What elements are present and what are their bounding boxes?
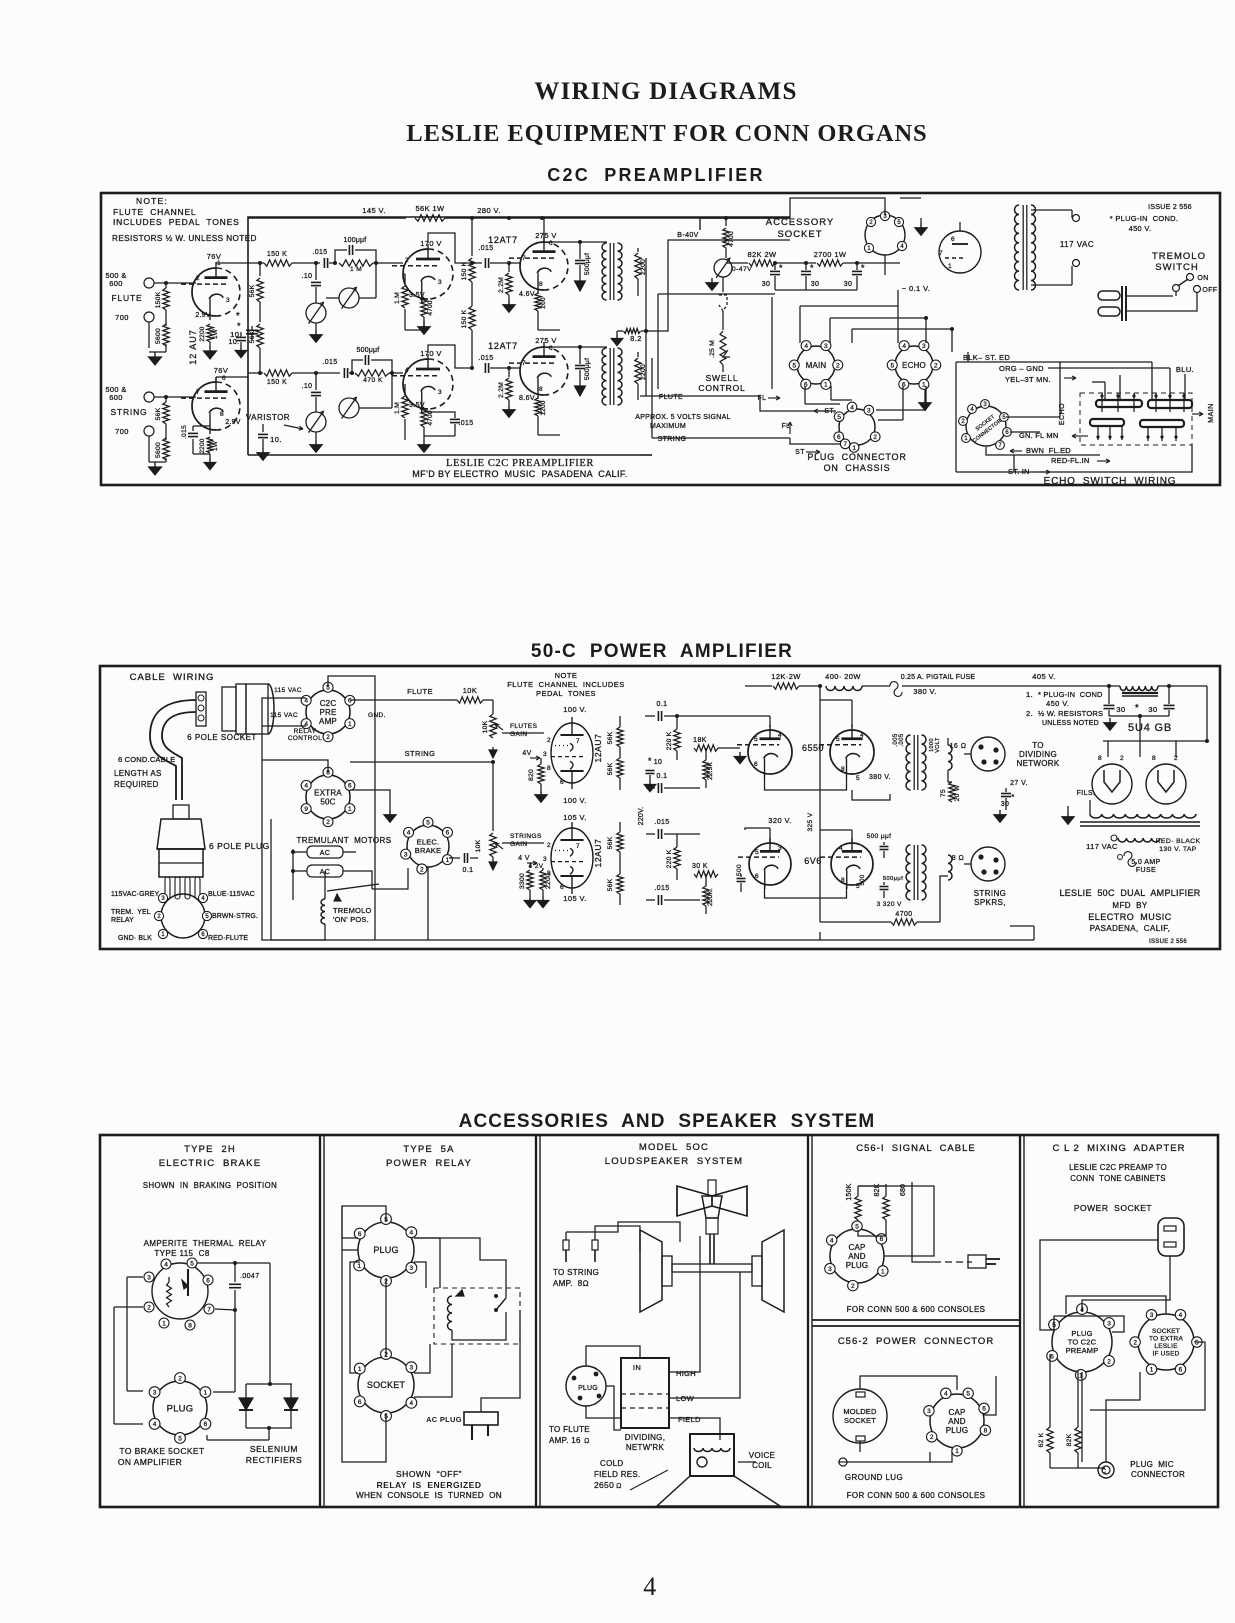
cable curve bbox=[150, 700, 196, 800]
svg-text:SELENIUM: SELENIUM bbox=[250, 1444, 298, 1454]
svg-text:LESLIE EQUIPMENT FOR CONN ORGA: LESLIE EQUIPMENT FOR CONN ORGANS bbox=[406, 120, 927, 147]
svg-text:TREM. YEL: TREM. YEL bbox=[111, 909, 151, 916]
svg-text:INCLUDES PEDAL TONES: INCLUDES PEDAL TONES bbox=[113, 217, 240, 227]
echo connector wires box bbox=[955, 362, 957, 472]
wire relay pin3 to plug pin3 bbox=[127, 1276, 143, 1278]
plug to c2c preamp bbox=[1052, 1312, 1112, 1372]
wires c56-1 bbox=[858, 1185, 886, 1187]
svg-text:ON AMPLIFIER: ON AMPLIFIER bbox=[118, 1457, 182, 1467]
relay blade internal bbox=[187, 1269, 189, 1296]
svg-text:76V: 76V bbox=[214, 366, 229, 375]
svg-text:FIELD: FIELD bbox=[678, 1415, 701, 1424]
svg-text:56K: 56K bbox=[249, 284, 256, 297]
svg-text:NOTE: NOTE bbox=[555, 671, 578, 680]
svg-text:2.2M: 2.2M bbox=[498, 277, 505, 293]
output transformer 50c lower bbox=[906, 845, 911, 900]
svg-text:117 VAC: 117 VAC bbox=[1060, 240, 1094, 249]
output transformer T1 flute bbox=[602, 243, 606, 300]
svg-text:4: 4 bbox=[405, 367, 409, 374]
svg-text:7: 7 bbox=[939, 250, 943, 257]
ground V1a cathode bbox=[209, 342, 211, 346]
svg-text:4: 4 bbox=[944, 1391, 948, 1398]
svg-text:1.M: 1.M bbox=[394, 292, 401, 304]
transformer T1 secondary 2200 bbox=[637, 248, 639, 252]
socket to extra leslie bbox=[1138, 1314, 1194, 1370]
svg-text:2: 2 bbox=[326, 819, 330, 826]
svg-text:AC: AC bbox=[320, 850, 331, 857]
svg-text:130 V. TAP: 130 V. TAP bbox=[1159, 846, 1197, 853]
tremolo switch bbox=[1187, 274, 1194, 281]
svg-text:12K·2W: 12K·2W bbox=[771, 672, 801, 681]
svg-text:8: 8 bbox=[539, 281, 543, 288]
svg-text:C: C bbox=[1102, 1469, 1107, 1475]
rectifier tube a bbox=[1092, 764, 1132, 804]
svg-text:2: 2 bbox=[1120, 755, 1124, 762]
resistor 5600 bbox=[163, 324, 169, 346]
svg-text:5: 5 bbox=[426, 820, 430, 827]
svg-text:56K 1W: 56K 1W bbox=[415, 204, 445, 213]
ground 2.2M string bbox=[508, 400, 510, 405]
svg-text:325 V: 325 V bbox=[807, 812, 814, 831]
svg-text:Ω: Ω bbox=[616, 1483, 622, 1490]
capacitor .015 V2b cathode bbox=[424, 412, 455, 418]
svg-text:FLUTE CHANNEL: FLUTE CHANNEL bbox=[113, 207, 196, 217]
wire V2b plate bbox=[428, 345, 472, 368]
svg-text:100 V.: 100 V. bbox=[563, 705, 586, 714]
resistor 2200 1W cathode V1b bbox=[207, 437, 213, 453]
svg-text:9: 9 bbox=[304, 806, 308, 813]
svg-text:6: 6 bbox=[206, 1277, 210, 1284]
feedback pot flute bbox=[339, 288, 359, 308]
svg-text:MF'D BY ELECTRO MUSIC PASADE: MF'D BY ELECTRO MUSIC PASADENA CALIF. bbox=[412, 469, 627, 479]
triode 12AU7 upper 50c bbox=[551, 723, 593, 783]
svg-text:1: 1 bbox=[357, 1263, 361, 1270]
svg-text:30: 30 bbox=[1001, 801, 1010, 808]
selector switch dashed box bbox=[1080, 393, 1192, 445]
svg-text:ACCESSORIES AND SPEAKER SYS: ACCESSORIES AND SPEAKER SYSTEM bbox=[459, 1111, 876, 1132]
svg-text:450 V.: 450 V. bbox=[1129, 224, 1152, 233]
svg-text:4: 4 bbox=[164, 1261, 168, 1268]
6V6 output tube left bbox=[749, 843, 770, 885]
svg-text:6: 6 bbox=[880, 1236, 884, 1243]
ground varistor flute bbox=[315, 323, 317, 330]
svg-text:SHOWN “OFF”: SHOWN “OFF” bbox=[396, 1469, 462, 1479]
svg-text:3: 3 bbox=[404, 851, 408, 858]
svg-text:4: 4 bbox=[860, 732, 864, 739]
svg-text:MFD BY: MFD BY bbox=[1112, 901, 1148, 910]
svg-text:4: 4 bbox=[902, 343, 906, 350]
ground V2a cathode bbox=[423, 317, 425, 322]
inner schematic border bbox=[248, 217, 790, 455]
svg-text:DIVIDING,: DIVIDING, bbox=[625, 1433, 665, 1442]
svg-text:2: 2 bbox=[547, 737, 551, 744]
svg-text:10.: 10. bbox=[270, 435, 282, 444]
svg-text:GAIN: GAIN bbox=[510, 841, 528, 848]
svg-text:MOLDED: MOLDED bbox=[843, 1407, 877, 1416]
svg-text:4: 4 bbox=[830, 1238, 834, 1245]
svg-text:4 2V: 4 2V bbox=[529, 863, 544, 870]
svg-text:4: 4 bbox=[304, 721, 308, 728]
svg-text:50-C POWER AMPLIFIER: 50-C POWER AMPLIFIER bbox=[531, 641, 793, 662]
svg-text:0-47V: 0-47V bbox=[732, 266, 752, 273]
svg-text:6 COND.CABLE: 6 COND.CABLE bbox=[118, 755, 175, 764]
svg-text:1: 1 bbox=[162, 1320, 166, 1327]
rectifier tube V4 bbox=[939, 231, 981, 273]
resistor .25M swell bbox=[720, 331, 726, 365]
svg-text:1: 1 bbox=[881, 1268, 885, 1275]
svg-text:6: 6 bbox=[358, 1231, 362, 1238]
50-C power amplifier border bbox=[100, 666, 1220, 949]
varistor lamp flute bbox=[306, 303, 326, 323]
svg-text:1: 1 bbox=[948, 263, 952, 270]
svg-text:RELAY IS ENERGIZED: RELAY IS ENERGIZED bbox=[377, 1480, 482, 1490]
svg-text:2: 2 bbox=[873, 434, 877, 441]
selector contact bar 1 bbox=[1096, 400, 1142, 407]
svg-text:POWER SOCKET: POWER SOCKET bbox=[1074, 1203, 1152, 1213]
svg-text:5: 5 bbox=[966, 1391, 970, 1398]
resistor 220K lower bbox=[674, 847, 680, 869]
svg-text:1W: 1W bbox=[212, 440, 219, 451]
resistor 8.2 with ground bbox=[616, 334, 618, 339]
svg-text:FOR CONN 500 & 600 CONSOLES: FOR CONN 500 & 600 CONSOLES bbox=[847, 1491, 986, 1500]
svg-text:TYPE 5A: TYPE 5A bbox=[403, 1144, 454, 1155]
svg-text:POWER RELAY: POWER RELAY bbox=[386, 1158, 472, 1169]
svg-text:12 AU7: 12 AU7 bbox=[188, 329, 198, 365]
filter capacitor 30 c bbox=[855, 261, 859, 265]
relay heater internal bbox=[167, 1282, 172, 1307]
svg-text:150 K: 150 K bbox=[461, 309, 468, 328]
svg-text:PASADENA, CALIF,: PASADENA, CALIF, bbox=[1090, 924, 1170, 933]
column dividers bbox=[319, 1135, 321, 1507]
svg-text:450 V.: 450 V. bbox=[1046, 699, 1069, 708]
resistor 4700 dropping bbox=[725, 218, 727, 226]
svg-text:ON CHASSIS: ON CHASSIS bbox=[824, 463, 891, 473]
svg-text:5600: 5600 bbox=[155, 328, 162, 344]
svg-text:Ω: Ω bbox=[584, 1438, 590, 1445]
svg-text:20 W: 20 W bbox=[954, 784, 961, 801]
svg-text:C56-2 POWER CONNECTOR: C56-2 POWER CONNECTOR bbox=[838, 1336, 994, 1347]
ECHO speaker connector bbox=[895, 346, 933, 384]
svg-text:ON: ON bbox=[1197, 275, 1208, 282]
svg-text:82K: 82K bbox=[1066, 1433, 1073, 1446]
svg-text:56K: 56K bbox=[607, 731, 614, 744]
svg-text:5: 5 bbox=[837, 414, 841, 421]
svg-text:5.0 AMP: 5.0 AMP bbox=[1131, 859, 1160, 866]
ground string input bbox=[154, 462, 156, 467]
molded socket bbox=[833, 1389, 887, 1443]
svg-text:FOR CONN 500 & 600 CONSOLES: FOR CONN 500 & 600 CONSOLES bbox=[847, 1305, 986, 1314]
svg-text:4: 4 bbox=[778, 732, 782, 739]
svg-text:2.2M: 2.2M bbox=[498, 382, 505, 398]
output transformer 50c upper bbox=[906, 735, 911, 790]
fuse 5 amp bbox=[1124, 852, 1136, 867]
wire -0.1V bus bbox=[658, 293, 775, 295]
svg-text:500: 500 bbox=[860, 874, 866, 885]
svg-text:4: 4 bbox=[410, 1400, 414, 1407]
selenium rectifier bridge bbox=[246, 1383, 292, 1385]
svg-text:5600: 5600 bbox=[155, 442, 162, 458]
svg-text:4.6V: 4.6V bbox=[519, 291, 535, 298]
svg-text:LESLIE C2C PREAMP TO: LESLIE C2C PREAMP TO bbox=[1069, 1163, 1167, 1172]
svg-text:10K: 10K bbox=[463, 686, 478, 695]
string input terminal 500&600 bbox=[144, 392, 154, 402]
6 pole socket drawing bbox=[218, 688, 270, 730]
svg-text:6: 6 bbox=[1179, 1367, 1183, 1374]
svg-text:.015: .015 bbox=[478, 245, 493, 252]
wire B+ drops bbox=[819, 686, 821, 700]
filter caps 30 30 bbox=[1104, 704, 1115, 706]
svg-text:7: 7 bbox=[522, 255, 526, 262]
tremolo motor plug bbox=[1098, 291, 1120, 300]
svg-text:ISSUE 2 556: ISSUE 2 556 bbox=[1148, 204, 1192, 211]
svg-text:GROUND LUG: GROUND LUG bbox=[845, 1473, 903, 1482]
svg-text:NOTE:: NOTE: bbox=[136, 196, 168, 206]
117 VAC terminals bbox=[1073, 215, 1080, 222]
svg-text:30: 30 bbox=[811, 281, 820, 288]
svg-text:115VAC·GREY: 115VAC·GREY bbox=[111, 891, 160, 898]
svg-text:6: 6 bbox=[1050, 1353, 1054, 1360]
svg-text:100μμf: 100μμf bbox=[344, 237, 367, 244]
wire c2c connector bbox=[328, 676, 375, 690]
svg-text:6V6: 6V6 bbox=[804, 856, 822, 866]
svg-text:4: 4 bbox=[643, 1572, 656, 1601]
svg-text:3: 3 bbox=[867, 407, 871, 414]
svg-text:4V: 4V bbox=[522, 750, 531, 757]
svg-text:OFF: OFF bbox=[1202, 287, 1217, 294]
svg-text:6: 6 bbox=[951, 236, 955, 243]
power socket bbox=[1158, 1218, 1184, 1256]
svg-text:6: 6 bbox=[549, 345, 553, 352]
svg-text:4: 4 bbox=[304, 783, 308, 790]
svg-text:12AT7: 12AT7 bbox=[488, 235, 518, 245]
svg-text:BLU.: BLU. bbox=[1176, 365, 1194, 374]
svg-text:REQUIRED: REQUIRED bbox=[114, 780, 159, 789]
svg-text:8 Ω: 8 Ω bbox=[952, 855, 964, 862]
svg-text:8: 8 bbox=[547, 765, 551, 772]
C2C preamplifier outer border bbox=[101, 193, 1220, 485]
svg-text:LOUDSPEAKER SYSTEM: LOUDSPEAKER SYSTEM bbox=[605, 1156, 743, 1167]
svg-text:CAP: CAP bbox=[848, 1243, 865, 1252]
wires 6550 stage bbox=[769, 716, 771, 727]
svg-text:145 V.: 145 V. bbox=[362, 206, 385, 215]
triode 12AU7 lower 50c bbox=[551, 828, 593, 888]
svg-text:27 V.: 27 V. bbox=[1010, 780, 1028, 787]
svg-text:3: 3 bbox=[543, 751, 547, 758]
svg-text:*: * bbox=[648, 756, 652, 766]
svg-text:2: 2 bbox=[934, 362, 938, 369]
resistor 4700 cathode V2b bbox=[421, 407, 427, 427]
svg-text:C2C PREAMPLIFIER: C2C PREAMPLIFIER bbox=[547, 165, 764, 185]
svg-text:STRING: STRING bbox=[405, 749, 436, 758]
relay contacts bbox=[494, 1294, 498, 1298]
svg-text:AMPERITE THERMAL RELAY: AMPERITE THERMAL RELAY bbox=[144, 1239, 267, 1248]
filter choke top right bbox=[1010, 685, 1120, 687]
svg-text:4: 4 bbox=[839, 845, 843, 852]
svg-text:6: 6 bbox=[560, 884, 564, 891]
svg-text:LENGTH AS: LENGTH AS bbox=[114, 769, 162, 778]
svg-text:PLUG: PLUG bbox=[846, 1261, 869, 1270]
svg-text:150 K: 150 K bbox=[461, 261, 468, 280]
svg-text:STRING: STRING bbox=[111, 407, 148, 417]
resistor 2200 1W cathode V1a bbox=[207, 324, 213, 342]
svg-text:1: 1 bbox=[204, 1389, 208, 1396]
wires dividing network bbox=[947, 738, 949, 745]
svg-text:500: 500 bbox=[736, 864, 743, 876]
svg-text:*: * bbox=[236, 311, 240, 322]
svg-text:3: 3 bbox=[438, 279, 442, 286]
svg-text:2: 2 bbox=[147, 1304, 151, 1311]
ground 2.2M flute bbox=[508, 295, 510, 300]
resistor 22.5K bbox=[703, 760, 709, 780]
svg-text:5: 5 bbox=[792, 362, 796, 369]
amperite thermal relay tube bbox=[152, 1263, 208, 1319]
svg-text:3: 3 bbox=[226, 297, 230, 304]
svg-text:ECHO SWITCH WIRING: ECHO SWITCH WIRING bbox=[1044, 476, 1177, 487]
svg-text:500μμf: 500μμf bbox=[584, 253, 591, 275]
svg-text:RELAY: RELAY bbox=[111, 917, 134, 924]
resistor 150K flute B+ bbox=[471, 218, 473, 256]
svg-text:ACCESSORY: ACCESSORY bbox=[766, 217, 834, 228]
svg-text:6 POLE PLUG: 6 POLE PLUG bbox=[209, 841, 270, 851]
svg-text:56K: 56K bbox=[607, 762, 614, 775]
svg-text:6 POLE SOCKET: 6 POLE SOCKET bbox=[187, 733, 257, 742]
svg-text:ISSUE 2 556: ISSUE 2 556 bbox=[1149, 939, 1187, 945]
svg-text:GND· BLK: GND· BLK bbox=[118, 935, 152, 942]
triode V1b 12AU7 lower bbox=[192, 382, 216, 430]
ground V2b cathode bbox=[423, 427, 425, 440]
svg-text:3: 3 bbox=[410, 1265, 414, 1272]
filter capacitor 30 b bbox=[804, 261, 808, 265]
svg-text:82K 2W: 82K 2W bbox=[747, 250, 777, 259]
svg-text:FLUTES: FLUTES bbox=[510, 723, 538, 730]
svg-text:LESLIE C2C PREAMPLIFIER: LESLIE C2C PREAMPLIFIER bbox=[446, 458, 594, 469]
resistor 5600 string bbox=[163, 438, 169, 460]
svg-text:4700: 4700 bbox=[895, 911, 912, 918]
svg-text:2: 2 bbox=[851, 1283, 855, 1290]
svg-text:8: 8 bbox=[1152, 755, 1156, 762]
svg-text:30: 30 bbox=[1116, 705, 1125, 714]
triode V1a 12AU7 upper bbox=[192, 268, 216, 316]
svg-text:3: 3 bbox=[410, 1365, 414, 1372]
svg-text:.10: .10 bbox=[302, 383, 313, 390]
svg-text:50C: 50C bbox=[320, 797, 335, 806]
C2C preamp connector bbox=[306, 690, 350, 734]
wire AT7 grids bbox=[509, 262, 520, 264]
svg-text:PREAMP: PREAMP bbox=[1066, 1346, 1099, 1355]
svg-text:3: 3 bbox=[927, 1408, 931, 1415]
svg-text:SPKRS,: SPKRS, bbox=[974, 898, 1006, 907]
svg-text:FLUTE CHANNEL INCLUDES: FLUTE CHANNEL INCLUDES bbox=[507, 680, 625, 689]
svg-text:* PLUG-IN COND: * PLUG-IN COND bbox=[1038, 690, 1103, 699]
svg-text:VARISTOR: VARISTOR bbox=[246, 413, 290, 422]
wire connector feeds bbox=[652, 240, 790, 331]
svg-text:TO STRING: TO STRING bbox=[553, 1268, 599, 1277]
svg-text:117 VAC: 117 VAC bbox=[1086, 842, 1118, 851]
svg-text:FILS.: FILS. bbox=[1077, 790, 1096, 797]
wire flute inputs bbox=[154, 282, 196, 284]
svg-text:1: 1 bbox=[852, 445, 856, 452]
svg-text:56K: 56K bbox=[607, 836, 614, 849]
svg-text:ST: ST bbox=[795, 449, 805, 456]
svg-text:150K: 150K bbox=[846, 1183, 853, 1200]
svg-text:PLUG: PLUG bbox=[946, 1426, 969, 1435]
svg-text:.015: .015 bbox=[181, 425, 188, 439]
svg-text:AND: AND bbox=[948, 1417, 966, 1426]
svg-text:220 K: 220 K bbox=[666, 849, 673, 868]
svg-text:2.9V: 2.9V bbox=[195, 312, 210, 319]
svg-text:6: 6 bbox=[348, 698, 352, 705]
svg-text:56K: 56K bbox=[607, 878, 614, 891]
wire extra 50c bbox=[262, 760, 328, 772]
wire flute string outputs bbox=[640, 395, 760, 397]
svg-text:PLUG CONNECTOR: PLUG CONNECTOR bbox=[807, 452, 906, 462]
svg-text:.015: .015 bbox=[654, 819, 669, 826]
svg-text:MAXIMUM: MAXIMUM bbox=[650, 423, 686, 430]
svg-text:*: * bbox=[779, 263, 783, 273]
svg-text:C2C: C2C bbox=[320, 699, 337, 708]
svg-text:700: 700 bbox=[115, 313, 129, 322]
svg-text:10.: 10. bbox=[229, 339, 240, 346]
svg-text:.015: .015 bbox=[322, 359, 337, 366]
svg-text:4: 4 bbox=[410, 1230, 414, 1237]
plug pinout circle bbox=[161, 894, 205, 938]
junction dots flute row bbox=[333, 261, 337, 265]
svg-text:18K: 18K bbox=[693, 737, 707, 744]
svg-text:TO EXTRA: TO EXTRA bbox=[1149, 1336, 1183, 1343]
6V6 output tube right bbox=[831, 843, 852, 885]
svg-text:.015: .015 bbox=[654, 885, 669, 892]
svg-text:8: 8 bbox=[841, 766, 845, 773]
svg-text:2650: 2650 bbox=[594, 1480, 614, 1490]
svg-text:IN: IN bbox=[633, 1363, 641, 1372]
wires 6V6 stage bbox=[769, 828, 771, 843]
wire bottom bus extension bbox=[820, 939, 1034, 941]
capacitor 0.1 brake bbox=[449, 857, 460, 859]
svg-text:5: 5 bbox=[178, 1435, 182, 1442]
plug connector on chassis bbox=[839, 409, 875, 445]
ac plug 5a bbox=[464, 1412, 498, 1425]
svg-text:ELECTRIC BRAKE: ELECTRIC BRAKE bbox=[159, 1158, 261, 1169]
svg-text:3: 3 bbox=[922, 343, 926, 350]
svg-text:2: 2 bbox=[1174, 755, 1178, 762]
svg-text:'ON' POS.: 'ON' POS. bbox=[333, 915, 369, 924]
resistor 220K upper bbox=[674, 729, 680, 751]
svg-text:LESLIE 50C DUAL AMPLIFIER: LESLIE 50C DUAL AMPLIFIER bbox=[1059, 888, 1200, 898]
svg-text:115 VAC: 115 VAC bbox=[270, 712, 298, 719]
resistor 1M grid V2a bbox=[403, 273, 405, 275]
svg-text:5: 5 bbox=[856, 775, 860, 782]
svg-text:3: 3 bbox=[778, 845, 782, 852]
plug 50c speaker bbox=[566, 1366, 606, 1406]
svg-text:6: 6 bbox=[358, 1399, 362, 1406]
svg-text:220K.: 220K. bbox=[707, 888, 714, 906]
resistor 56K vertical lower bbox=[257, 324, 263, 348]
svg-text:3: 3 bbox=[543, 856, 547, 863]
wire V2a plate up bbox=[428, 233, 472, 263]
svg-text:380 V.: 380 V. bbox=[913, 687, 936, 696]
pot 10K strings gain bbox=[490, 833, 496, 857]
wire 5U4 plate rail bbox=[1139, 716, 1141, 757]
svg-text:SHOWN IN BRAKING POSITION: SHOWN IN BRAKING POSITION bbox=[143, 1181, 277, 1190]
wire V1a plate to 76V rail bbox=[215, 262, 217, 263]
elec brake connector bbox=[407, 825, 449, 867]
svg-text:8: 8 bbox=[984, 1428, 988, 1435]
svg-text:TREMOLO: TREMOLO bbox=[333, 906, 372, 915]
wires MAIN ECHO down to plug bbox=[804, 386, 806, 404]
woofer cone bbox=[657, 1476, 780, 1506]
svg-text:UNLESS NOTED: UNLESS NOTED bbox=[1042, 720, 1099, 727]
svg-text:4700: 4700 bbox=[427, 300, 434, 315]
